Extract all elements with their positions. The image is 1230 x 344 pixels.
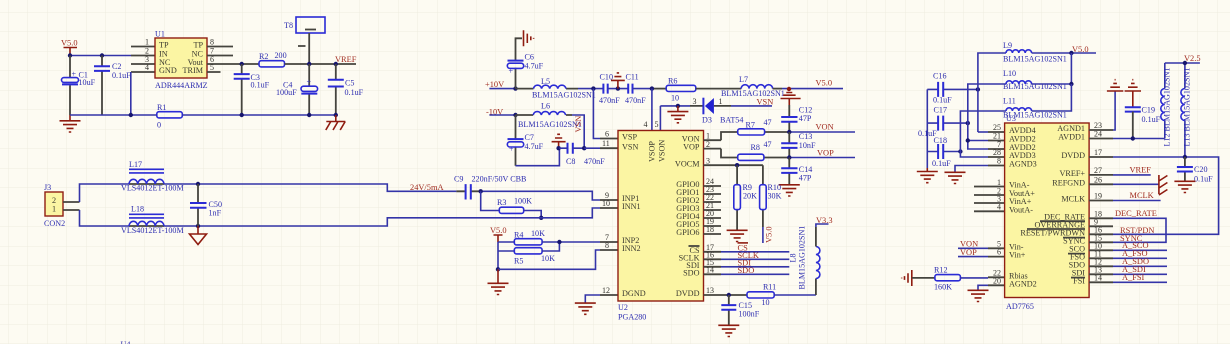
- svg-text:C10: C10: [600, 72, 614, 81]
- op-amp U1 ADR444ARMZ body: [155, 30, 208, 91]
- svg-text:SDO: SDO: [738, 266, 755, 275]
- svg-text:220nF/50V CBB: 220nF/50V CBB: [472, 175, 527, 184]
- node junction C3 top: [240, 62, 244, 66]
- node junction L10/L11 riser: [1069, 82, 1073, 86]
- ground rotated at C6 top: [524, 30, 534, 46]
- svg-text:3: 3: [693, 97, 697, 106]
- svg-text:BLM15AG102SN1: BLM15AG102SN1: [1003, 55, 1067, 64]
- svg-text:27: 27: [1094, 166, 1102, 175]
- svg-text:160K: 160K: [934, 283, 952, 292]
- svg-text:200: 200: [275, 51, 287, 60]
- wire AVDD3 pin28: [960, 152, 988, 158]
- svg-text:Vin+: Vin+: [1009, 251, 1026, 260]
- node junction mid C10/C11: [616, 86, 620, 90]
- inductor L9 BLM15AG102SN1: [978, 41, 1067, 132]
- ground under C20: [1174, 181, 1195, 192]
- ground under C14: [779, 185, 800, 196]
- svg-text:MCLK: MCLK: [1061, 195, 1085, 204]
- wire R3 right drop: [524, 211, 542, 218]
- test point T8: [284, 17, 325, 64]
- svg-text:BLM15AG102SN1: BLM15AG102SN1: [721, 89, 785, 98]
- node junction R9 tap: [735, 163, 739, 167]
- svg-text:C9: C9: [454, 175, 463, 184]
- op-amp U2 PGA280 body: [618, 131, 704, 322]
- svg-text:47: 47: [764, 140, 772, 149]
- svg-text:VOP: VOP: [683, 143, 700, 152]
- wire ground rail: [70, 114, 336, 116]
- ground under DGND: [575, 303, 596, 314]
- wire DVDD row and pullup loop: [1113, 157, 1219, 234]
- resistor R8 47: [738, 140, 772, 161]
- svg-text:VOCM: VOCM: [675, 159, 700, 168]
- svg-text:R5: R5: [514, 257, 523, 266]
- svg-text:DGND: DGND: [622, 289, 646, 298]
- svg-text:4: 4: [997, 203, 1001, 212]
- svg-text:C16: C16: [933, 72, 947, 81]
- capacitor C7 4.7uF: [507, 115, 543, 166]
- svg-text:TRIM: TRIM: [183, 66, 204, 75]
- wire R4/R5 right join to INP2: [542, 242, 600, 251]
- svg-text:C6: C6: [525, 53, 534, 62]
- svg-text:100nF: 100nF: [739, 310, 760, 319]
- svg-text:L10: L10: [1003, 69, 1016, 78]
- svg-text:10nF: 10nF: [799, 141, 816, 150]
- svg-text:DVDD: DVDD: [676, 289, 700, 298]
- node junction C5 top: [334, 62, 338, 66]
- wire C10 to C11: [608, 88, 629, 90]
- svg-text:L13 BLM15AG102SN1: L13 BLM15AG102SN1: [1183, 68, 1192, 147]
- svg-text:INN1: INN1: [622, 202, 641, 211]
- node junction C17/AVDD2: [966, 121, 970, 125]
- wire U1 pin4 GND drop: [130, 72, 132, 115]
- node junction C18/AVDD3: [958, 149, 962, 153]
- svg-text:TP: TP: [159, 40, 169, 49]
- svg-text:A_FSI: A_FSI: [1122, 273, 1145, 282]
- wire VOP to pin6: [958, 256, 988, 258]
- svg-text:10K: 10K: [531, 229, 545, 238]
- svg-text:5: 5: [655, 120, 659, 129]
- node junction R3/INN1 line: [539, 216, 543, 220]
- wire A_FSO row: [1113, 257, 1167, 259]
- inductor L17 VLS4012ET-100M: [121, 160, 184, 193]
- svg-text:DEC_RATE: DEC_RATE: [1115, 209, 1157, 218]
- U3 left pin stubs: [974, 132, 1005, 285]
- svg-text:VSOP: VSOP: [648, 141, 657, 162]
- capacitor C50 1nF: [190, 184, 222, 226]
- wire R3 branch left: [481, 191, 500, 210]
- svg-text:C8: C8: [566, 157, 575, 166]
- wire DEC_RATE loop to SYNC: [1113, 218, 1166, 242]
- svg-text:100uF: 100uF: [276, 88, 297, 97]
- svg-text:VLS4012ET-100M: VLS4012ET-100M: [121, 184, 184, 193]
- node junction VSP riser: [591, 86, 595, 90]
- svg-text:10: 10: [671, 94, 679, 103]
- svg-text:VREF: VREF: [335, 55, 357, 64]
- power symbol V5.0: [61, 39, 78, 56]
- svg-text:DVDD: DVDD: [1061, 151, 1085, 160]
- wire J3 pin2 riser to top line: [80, 184, 130, 202]
- wire AVDD1 row: [1113, 138, 1165, 140]
- svg-text:L8: L8: [789, 254, 798, 263]
- capacitor C1 10uF: [62, 56, 96, 116]
- node junction T8/C4: [307, 62, 311, 66]
- svg-text:VSN: VSN: [574, 116, 583, 133]
- inductor L12 BLM15AG102SN1 vertical: [1161, 63, 1172, 147]
- wire L7 to V5.0: [773, 88, 782, 90]
- svg-text:SDO: SDO: [683, 269, 699, 278]
- svg-text:VLS4012ET-100M: VLS4012ET-100M: [121, 226, 184, 235]
- svg-text:T8: T8: [284, 21, 293, 30]
- wire MCLK row: [1113, 200, 1161, 202]
- node junction C1 top: [68, 53, 72, 57]
- ground under D3 row: [667, 106, 688, 123]
- wire bottom line to INN1: [164, 208, 600, 226]
- resistor R11 10: [747, 283, 776, 308]
- capacitor C8 470nF: [559, 143, 605, 166]
- wire VSON riser pin5: [659, 106, 661, 131]
- ground flipped above C8: [552, 134, 566, 148]
- svg-text:C11: C11: [626, 72, 639, 81]
- ground under AGND2: [968, 290, 989, 301]
- svg-text:R1: R1: [157, 103, 166, 112]
- svg-text:+: +: [509, 67, 514, 76]
- node junction C13/C14 on VOP: [787, 155, 791, 159]
- earth ground right: [334, 113, 338, 117]
- node junction C6 bottom: [513, 86, 517, 90]
- inductor L7 BLM15AG102SN1: [721, 75, 785, 98]
- node junction R3 tap: [479, 189, 483, 193]
- node junction L13 top: [1183, 61, 1187, 65]
- svg-text:8: 8: [605, 241, 609, 250]
- U1 right pin stubs: [207, 47, 233, 73]
- svg-text:VREF: VREF: [1130, 165, 1152, 174]
- svg-text:12: 12: [602, 286, 610, 295]
- wire L5 to C10: [578, 88, 603, 90]
- svg-text:U1: U1: [155, 30, 165, 39]
- svg-text:VoutA-: VoutA-: [1009, 205, 1033, 214]
- wire V5.0 row to U1 pin2: [70, 55, 131, 57]
- svg-text:REFGND: REFGND: [1052, 178, 1085, 187]
- svg-text:PGA280: PGA280: [618, 313, 646, 322]
- wire VSP riser: [593, 89, 600, 139]
- node junction C20/L13: [1183, 155, 1187, 159]
- svg-text:AGND3: AGND3: [1009, 160, 1037, 169]
- capacitor C13 10nF: [781, 132, 816, 158]
- diode D3 BAT54: [690, 97, 743, 125]
- svg-text:R3: R3: [497, 198, 506, 207]
- capacitor C10 470nF: [599, 72, 620, 105]
- svg-text:C2: C2: [112, 62, 121, 71]
- svg-text:BLM15AG102SN1: BLM15AG102SN1: [798, 226, 807, 290]
- wire VSOP riser pin4: [651, 89, 653, 131]
- wire VON to pin5: [958, 247, 988, 249]
- svg-text:6: 6: [997, 248, 1001, 257]
- svg-text:AD7765: AD7765: [1006, 302, 1034, 311]
- wire L10 right riser: [1032, 53, 1072, 84]
- wire DGND drop: [585, 295, 600, 303]
- wire VOP riser and row: [721, 149, 789, 158]
- svg-text:VOP: VOP: [960, 248, 977, 257]
- ground under R9: [727, 230, 748, 241]
- node junction R5 left ground: [496, 267, 500, 271]
- wire A_SDI row: [1113, 273, 1167, 275]
- svg-text:C19: C19: [1142, 106, 1156, 115]
- svg-text:47: 47: [764, 118, 772, 127]
- svg-text:4: 4: [145, 63, 149, 72]
- svg-text:0.1uF: 0.1uF: [1142, 115, 1161, 124]
- wire R4/R5 left vertical: [498, 242, 514, 269]
- wire SCLK row: [721, 258, 789, 260]
- resistor R1 0: [157, 103, 183, 130]
- svg-text:VREF+: VREF+: [1059, 169, 1085, 178]
- svg-text:L11: L11: [1003, 97, 1016, 106]
- capacitor C12 47P: [781, 105, 812, 132]
- node junction C50 top: [196, 182, 200, 186]
- wire J3 pin1 drop to bottom line: [80, 210, 130, 226]
- svg-text:V5.0: V5.0: [816, 79, 833, 88]
- node junction C2 top: [100, 53, 104, 57]
- svg-text:100K: 100K: [514, 197, 532, 206]
- wire R6 to L7: [696, 88, 741, 90]
- wire R12 to Rbias pin22: [960, 277, 988, 279]
- wire AGND3 pin8 drop: [955, 166, 988, 173]
- inductor L6 BLM15AG102SN1: [516, 102, 582, 129]
- capacitor C14 47P: [781, 158, 812, 185]
- svg-text:U3: U3: [1006, 114, 1016, 123]
- wire REFGND row: [1113, 183, 1159, 185]
- wire AGND1 riser: [1113, 91, 1115, 130]
- wire C7 bottom to C8: [516, 148, 560, 166]
- wire L8 to V3.3: [815, 227, 817, 247]
- node junction C12 red: [787, 87, 791, 91]
- capacitor C2 0.1uF: [94, 56, 131, 116]
- capacitor C19 0.1uF: [1125, 106, 1161, 139]
- svg-text:10: 10: [602, 199, 610, 208]
- wire CS row: [721, 251, 789, 253]
- resistor R5 10K: [514, 248, 555, 266]
- connector J3 CON2: [44, 183, 80, 228]
- capacitor C15 100nF: [721, 295, 759, 325]
- ground under R5: [488, 269, 509, 294]
- node junction C12/C13 on VON: [787, 130, 791, 134]
- svg-text:R2: R2: [259, 52, 268, 61]
- svg-text:19: 19: [1094, 192, 1102, 201]
- inductor L5 BLM15AG102SN1: [516, 77, 596, 100]
- capacitor C3 0.1uF: [234, 64, 270, 115]
- svg-text:R8: R8: [751, 143, 760, 152]
- svg-text:+10V: +10V: [485, 80, 504, 89]
- capacitor C6 4.7uF: [507, 38, 543, 88]
- svg-text:CON2: CON2: [44, 219, 65, 228]
- svg-text:20K: 20K: [743, 192, 757, 201]
- svg-text:R6: R6: [668, 77, 677, 86]
- svg-text:R11: R11: [763, 283, 776, 292]
- resistor R9 20K vertical: [734, 165, 757, 230]
- node junction C16/AVDD4: [976, 87, 980, 91]
- svg-text:4.7uF: 4.7uF: [525, 142, 544, 151]
- wire L6 to VSN riser: [572, 115, 584, 148]
- svg-text:L5: L5: [541, 77, 550, 86]
- node junction D3 ground: [676, 104, 680, 108]
- svg-text:11: 11: [602, 139, 610, 148]
- svg-text:V3.3: V3.3: [816, 216, 833, 225]
- node junction VSN riser: [582, 146, 586, 150]
- ground triangle under C50: [190, 226, 207, 245]
- node junction C19/AVDD1: [1131, 136, 1135, 140]
- wire VSON to D3 row: [660, 105, 690, 107]
- svg-text:13: 13: [706, 286, 714, 295]
- node junction C7 top: [513, 113, 517, 117]
- svg-text:L18: L18: [131, 205, 144, 214]
- svg-text:24: 24: [1094, 130, 1102, 139]
- svg-text:VON: VON: [816, 123, 834, 132]
- inductor L10 BLM15AG102SN1: [968, 69, 1067, 141]
- svg-text:VOP: VOP: [817, 149, 834, 158]
- svg-text:0.1uF: 0.1uF: [112, 71, 131, 80]
- wire AVDD2 pins 21/7: [968, 141, 988, 150]
- svg-text:0: 0: [157, 121, 161, 130]
- svg-text:V2.5: V2.5: [1184, 54, 1201, 63]
- svg-text:INN2: INN2: [622, 244, 641, 253]
- svg-text:R4: R4: [514, 231, 523, 240]
- svg-text:8: 8: [210, 38, 214, 47]
- ground flipped AGND1: [1107, 80, 1123, 91]
- ground flipped C19: [1125, 80, 1141, 108]
- svg-text:VSP: VSP: [622, 133, 637, 142]
- wire C9 to INP1: [481, 191, 600, 200]
- svg-text:47P: 47P: [799, 114, 812, 123]
- ground flipped above C12: [781, 93, 801, 106]
- svg-text:J3: J3: [44, 183, 51, 192]
- svg-text:C18: C18: [934, 136, 948, 145]
- inductor L8 BLM15AG102SN1 vertical: [789, 226, 820, 290]
- wire VREF row after R2: [285, 63, 357, 65]
- capacitor C16 0.1uF: [927, 72, 978, 105]
- ground flipped above C10/C11: [611, 73, 625, 89]
- wire DVDD row: [721, 294, 747, 296]
- svg-text:AGND2: AGND2: [1009, 279, 1037, 288]
- resistor R10 30K vertical: [760, 165, 782, 227]
- svg-text:BLM15AG102SN1: BLM15AG102SN1: [532, 91, 596, 100]
- resistor R7 47: [738, 118, 772, 135]
- svg-text:L7: L7: [739, 75, 748, 84]
- svg-text:470nF: 470nF: [625, 96, 646, 105]
- svg-text:D3: D3: [702, 116, 712, 125]
- capacitor C11 470nF: [625, 72, 646, 105]
- inductor L18 VLS4012ET-100M: [121, 205, 184, 236]
- wire AVDD4 pin25: [978, 131, 988, 133]
- svg-text:1nF: 1nF: [209, 209, 222, 218]
- svg-text:VSN: VSN: [757, 97, 774, 106]
- svg-text:4.7uF: 4.7uF: [525, 62, 544, 71]
- svg-text:14: 14: [706, 266, 714, 275]
- node junction V5.0 riser: [1069, 51, 1073, 55]
- wire top line to C9: [164, 184, 456, 191]
- svg-text:+: +: [307, 78, 312, 87]
- resistor R2 200: [259, 51, 287, 67]
- capacitor C9 220nF/50V CBB: [454, 175, 526, 200]
- ground under bus: [917, 168, 938, 183]
- svg-text:V5.0: V5.0: [61, 39, 78, 48]
- resistor R4 10K: [514, 229, 545, 245]
- svg-text:10: 10: [762, 298, 770, 307]
- node junction C50 bottom: [196, 224, 200, 228]
- op-amp U3 AD7765 body: [1005, 114, 1090, 311]
- svg-text:V5.0: V5.0: [490, 226, 507, 235]
- svg-text:10uF: 10uF: [79, 78, 96, 87]
- wire L11 to riser: [1032, 84, 1072, 111]
- svg-text:C13: C13: [799, 132, 813, 141]
- wire R11 to L8: [774, 294, 816, 296]
- svg-text:1: 1: [145, 38, 149, 47]
- capacitor C20 0.1uF: [1177, 157, 1213, 184]
- node junctions on rail: [129, 113, 133, 117]
- inductor L13 BLM15AG102SN1 vertical: [1181, 63, 1192, 157]
- node junction C8 left: [556, 146, 560, 150]
- svg-text:C17: C17: [934, 106, 948, 115]
- svg-text:C7: C7: [525, 133, 534, 142]
- earth ground rotated: [1159, 175, 1168, 195]
- svg-text:AVDD1: AVDD1: [1058, 133, 1085, 142]
- capacitor C17 0.1uF: [918, 106, 968, 139]
- capacitor C18 0.1uF: [927, 136, 960, 168]
- power symbol V5.0 at R4: [490, 226, 507, 242]
- svg-text:ADR444ARMZ: ADR444ARMZ: [155, 81, 208, 90]
- svg-text:L6: L6: [541, 102, 550, 111]
- svg-text:14: 14: [1094, 273, 1102, 282]
- capacitor C5 0.1uF: [328, 64, 364, 115]
- svg-text:+: +: [72, 70, 77, 79]
- node junction VSOP riser: [650, 86, 654, 90]
- svg-text:30K: 30K: [768, 192, 782, 201]
- wire A_SDO row: [1113, 265, 1167, 267]
- svg-text:3: 3: [706, 156, 710, 165]
- svg-text:L17: L17: [129, 160, 142, 169]
- svg-text:1: 1: [52, 204, 56, 213]
- svg-text:20: 20: [993, 276, 1001, 285]
- wire VON riser and row: [721, 132, 789, 140]
- wire SDO row: [721, 273, 789, 275]
- power stub V5.0 under R10: [762, 227, 764, 243]
- wire L9 to V5.0: [1032, 52, 1096, 54]
- U1 left pin stubs 1-4: [131, 47, 155, 73]
- svg-text:+: +: [509, 145, 514, 154]
- wire INN2 reference line: [498, 250, 600, 269]
- svg-text:470nF: 470nF: [584, 157, 605, 166]
- wire VREF row: [1113, 174, 1151, 176]
- wire VOCM row: [721, 164, 763, 166]
- svg-text:17: 17: [1094, 148, 1102, 157]
- svg-text:V5.0: V5.0: [1072, 45, 1089, 54]
- ground under AGND3: [945, 172, 966, 183]
- svg-text:0.1uF: 0.1uF: [251, 81, 270, 90]
- svg-text:U4: U4: [121, 340, 131, 344]
- svg-text:1: 1: [719, 97, 723, 106]
- wire ground to R12: [912, 277, 935, 279]
- ground under C15: [718, 325, 739, 336]
- svg-text:18: 18: [706, 225, 714, 234]
- svg-text:U2: U2: [618, 303, 628, 312]
- svg-text:0.1uF: 0.1uF: [933, 96, 952, 105]
- capacitor C4 100uF: [276, 64, 318, 115]
- svg-text:6: 6: [605, 130, 609, 139]
- svg-text:L12 BLM15AG102SN1: L12 BLM15AG102SN1: [1163, 68, 1172, 147]
- svg-text:VSON: VSON: [658, 140, 667, 162]
- svg-text:26: 26: [1094, 175, 1102, 184]
- svg-text:L9: L9: [1003, 41, 1012, 50]
- svg-text:GPIO6: GPIO6: [676, 228, 699, 237]
- node junction C15: [727, 293, 731, 297]
